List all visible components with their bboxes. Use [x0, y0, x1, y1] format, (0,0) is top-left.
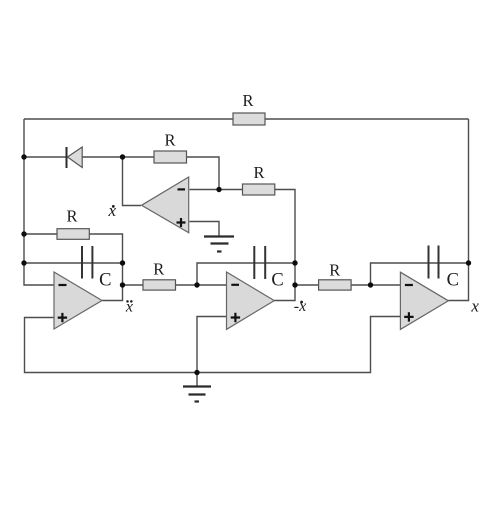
wire top feedback row — [24, 118, 469, 120]
label C3 value C — [447, 271, 459, 291]
resistor R1 top feedback — [233, 113, 265, 125]
label net x (U3 output) — [470, 297, 479, 316]
wire C3 row — [371, 263, 469, 285]
node x output junction — [466, 260, 471, 265]
label R4 value R — [66, 207, 77, 226]
label C2 value C — [271, 271, 283, 291]
ground G1 (U4 plus input) — [204, 237, 234, 252]
node diode right / x' junction — [120, 154, 125, 159]
wire R2 row to U4 inverting input — [123, 157, 220, 190]
svg-text:R: R — [153, 260, 164, 279]
ground G2 (bottom rail) — [183, 373, 211, 402]
node x'' output junction — [120, 282, 125, 287]
wire C2 row — [197, 263, 295, 285]
label R6 value R — [329, 261, 340, 280]
wire R6 row to U3 minus — [295, 284, 400, 286]
svg-text:C: C — [447, 271, 459, 291]
svg-text:x: x — [470, 297, 479, 316]
wire U1 plus input down to bottom rail — [25, 318, 198, 373]
svg-text:R: R — [66, 207, 77, 226]
resistor R5 (x'' to U2) — [143, 280, 176, 290]
resistor R3 (input to U4) — [243, 184, 275, 195]
op-amp U1 (x'' integrator) — [54, 272, 102, 329]
resistor R6 (-x' to U3) — [319, 280, 352, 290]
wire R4 feedback row U1 — [24, 234, 123, 263]
svg-text:-x: -x — [294, 298, 306, 315]
diode D1 — [67, 147, 83, 168]
svg-text:R: R — [242, 91, 253, 110]
label net x' (U4 output) — [108, 201, 117, 220]
svg-text:C: C — [271, 271, 283, 291]
node C1 left junction — [21, 260, 26, 265]
op-amp U3 (x integrator) — [400, 272, 448, 329]
label C1 value C — [99, 271, 111, 291]
wire R5 row to U2 minus — [123, 284, 227, 286]
svg-text:R: R — [164, 131, 175, 150]
op-amp U4 (inverter, x') — [142, 177, 189, 233]
wire U2 plus input down to bottom rail — [197, 317, 226, 373]
op-amp U2 (-x' integrator) — [227, 272, 275, 329]
label R3 value R — [253, 163, 264, 182]
capacitor C1 — [82, 246, 92, 279]
node R4 left junction — [21, 231, 26, 236]
node ground rail junction — [194, 370, 199, 375]
wire bottom rail to U3 plus — [197, 317, 400, 373]
capacitor C2 — [254, 246, 265, 279]
node U2 inverting input — [194, 282, 199, 287]
resistor R2 (U4 feedback) — [154, 151, 187, 163]
label R1 value R — [242, 91, 253, 110]
label R5 value R — [153, 260, 164, 279]
node -x' output junction — [292, 282, 297, 287]
svg-text:x: x — [108, 201, 117, 220]
node diode left junction — [21, 154, 26, 159]
label net -x' (U2 output) — [294, 298, 306, 315]
wire U4 output up to diode node — [123, 157, 142, 206]
svg-text:R: R — [253, 163, 264, 182]
node C1 right junction — [120, 260, 125, 265]
label net x'' (U1 output) — [125, 298, 133, 315]
svg-text:R: R — [329, 261, 340, 280]
wire U4 minus input — [190, 189, 220, 191]
resistor R4 (U1 feedback) — [57, 229, 89, 240]
wire C1 row — [24, 262, 123, 264]
node C2 right junction — [292, 260, 297, 265]
wire R3 row from -x node to U4 input node — [219, 190, 295, 264]
node U3 inverting input — [368, 282, 373, 287]
wire U1 output node vertical — [102, 263, 123, 301]
wire U3 output node vertical — [448, 263, 468, 301]
wire left vertical (U1 inverting node) — [24, 119, 54, 285]
wire U4 plus input to ground — [190, 222, 220, 237]
node U4 inverting input — [216, 187, 221, 192]
capacitor C3 — [429, 246, 439, 279]
wire U2 output node vertical — [274, 263, 295, 301]
wire diode row — [24, 156, 123, 158]
label R2 value R — [164, 131, 175, 150]
svg-text:C: C — [99, 271, 111, 291]
wire right vertical (x output to top) — [468, 119, 470, 263]
